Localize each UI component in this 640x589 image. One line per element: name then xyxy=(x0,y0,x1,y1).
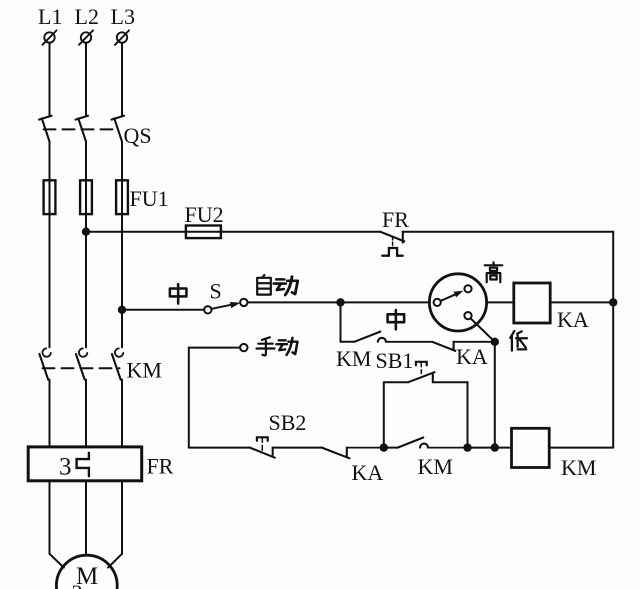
wire KA coil to right bus xyxy=(550,301,613,303)
svg-text:3: 3 xyxy=(72,580,83,589)
wire to selector S xyxy=(122,309,204,311)
float level sensor switch xyxy=(429,274,486,331)
label zhong middle row xyxy=(388,310,405,329)
contactor aux contact KM self-hold xyxy=(398,438,468,448)
svg-text:KM: KM xyxy=(336,346,371,371)
junction dot right bus xyxy=(610,299,616,305)
svg-text:FR: FR xyxy=(382,207,409,232)
pushbutton SB2 NC xyxy=(250,437,275,457)
label zhong left xyxy=(170,284,187,303)
junction dot on L3 tap xyxy=(119,307,125,313)
pushbutton SB1 NO xyxy=(408,362,434,382)
junction dot node E xyxy=(492,444,498,450)
svg-text:SB1: SB1 xyxy=(376,348,414,373)
wire sensor to KA coil xyxy=(487,301,514,303)
wire bottom row lead xyxy=(189,447,250,449)
terminal L1 xyxy=(43,30,57,44)
wire auto row xyxy=(248,301,430,303)
label di low xyxy=(510,331,527,351)
svg-text:FR: FR xyxy=(147,454,174,479)
relay contact KA bottom xyxy=(322,448,384,459)
label zidong auto xyxy=(257,275,298,295)
contactor KM main pole 1 xyxy=(39,348,50,379)
wire L2 vertical xyxy=(85,43,87,556)
thermal relay NC contact FR xyxy=(380,232,404,256)
svg-text:FU1: FU1 xyxy=(130,186,169,211)
svg-text:KM: KM xyxy=(561,455,596,480)
svg-text:L2: L2 xyxy=(75,4,99,29)
fuse FU2 xyxy=(186,226,221,239)
wire node B down xyxy=(494,342,496,448)
terminal L3 xyxy=(115,30,129,44)
svg-text:KA: KA xyxy=(456,344,488,369)
wire xyxy=(384,447,398,449)
svg-text:KA: KA xyxy=(352,460,384,485)
wire KM coil to right bus xyxy=(549,447,613,449)
svg-text:3: 3 xyxy=(59,454,72,481)
svg-text:QS: QS xyxy=(124,123,152,148)
switch QS pole 3 xyxy=(112,116,125,142)
switch QS pole 2 xyxy=(76,116,89,142)
junction dot on L2 control tap xyxy=(83,229,89,235)
wire top control line right xyxy=(403,231,613,233)
wire top control line left xyxy=(86,231,380,233)
junction dot node A xyxy=(337,299,343,305)
terminal L2 xyxy=(79,30,93,44)
fuse FU1 pole 3 xyxy=(116,180,128,214)
svg-text:S: S xyxy=(210,279,222,304)
label gao high xyxy=(485,262,503,282)
wire SB1 branch left xyxy=(384,382,408,447)
contactor KM main pole 2 xyxy=(76,348,87,379)
wire L3 vertical xyxy=(108,43,122,568)
svg-text:SB2: SB2 xyxy=(269,410,307,435)
fuse FU1 pole 2 xyxy=(80,180,92,214)
manual throw terminal xyxy=(240,344,247,351)
wire node A down xyxy=(340,302,342,341)
svg-text:FU2: FU2 xyxy=(185,202,224,227)
svg-text:L3: L3 xyxy=(111,4,135,29)
selector switch S xyxy=(204,299,247,314)
relay contact KA middle row xyxy=(432,342,495,351)
wire middle row lead xyxy=(341,341,355,343)
relay coil KA xyxy=(514,283,550,323)
switch QS pole 1 xyxy=(39,116,52,142)
wire sensor low contact to node B xyxy=(471,318,495,341)
svg-text:KM: KM xyxy=(418,454,453,479)
wire manual branch xyxy=(189,348,240,448)
svg-text:KM: KM xyxy=(127,358,162,383)
QS linkage dashed xyxy=(44,128,120,130)
wire SB1 branch right xyxy=(433,382,468,447)
wire right bus xyxy=(612,232,614,448)
contactor KM main pole 3 xyxy=(112,348,123,379)
svg-text:L1: L1 xyxy=(38,4,62,29)
fuse FU1 pole 1 xyxy=(44,180,56,214)
KM linkage dashed xyxy=(43,367,120,369)
contactor coil KM xyxy=(512,428,550,467)
motor M circle xyxy=(56,555,117,589)
junction dot node C xyxy=(381,444,387,450)
thermal relay heater box FR xyxy=(28,447,142,481)
wire xyxy=(468,447,512,449)
label shoudong manual xyxy=(257,337,298,355)
svg-text:KA: KA xyxy=(557,307,589,332)
wire L1 vertical xyxy=(50,43,64,568)
junction dot node D xyxy=(464,444,470,450)
contactor aux contact KM middle row xyxy=(354,332,432,342)
junction dot node B xyxy=(492,339,498,345)
wire xyxy=(273,447,322,449)
